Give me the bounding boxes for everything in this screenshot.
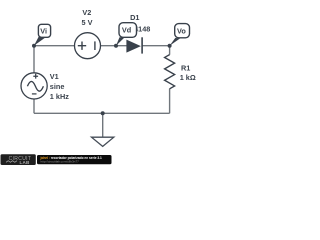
svg-text:1 kΩ: 1 kΩ: [180, 73, 196, 82]
label V1 value: [50, 72, 69, 101]
wire bottom horizontal: [34, 112, 170, 114]
node Vo flag: [170, 24, 190, 46]
svg-text:Vi: Vi: [40, 26, 47, 35]
svg-text:V1: V1: [50, 72, 59, 81]
node junction dot Vi: [32, 44, 36, 48]
voltage source V2: [75, 33, 101, 59]
svg-text:sine: sine: [50, 82, 65, 91]
ground: [92, 137, 114, 146]
node junction dot Vd: [114, 44, 118, 48]
voltage source V1 (sine): [21, 73, 47, 99]
diode D1: [126, 37, 142, 53]
wire right vertical lower: [169, 89, 171, 114]
label R1 value: [180, 63, 196, 82]
node Vd flag: [116, 23, 137, 46]
svg-text:Vd: Vd: [122, 26, 131, 35]
svg-text:D1: D1: [130, 13, 139, 22]
wire left vertical upper: [33, 45, 35, 73]
watermark CircuitLab logo badge: [1, 154, 36, 165]
svg-text:V2: V2: [82, 8, 91, 17]
svg-text:LAB: LAB: [20, 160, 31, 165]
wire V2-to-diode: [101, 45, 127, 47]
wire left vertical lower: [33, 99, 35, 113]
wire top-left horizontal: [34, 45, 75, 47]
node junction dot Vo: [168, 44, 172, 48]
label V2 value: [82, 8, 93, 27]
svg-text:1 kHz: 1 kHz: [50, 92, 69, 101]
svg-text:http://circuitlab.com/c8b3rt77: http://circuitlab.com/c8b3rt77: [41, 160, 80, 164]
node Vi flag: [34, 24, 51, 45]
svg-text:R1: R1: [181, 63, 190, 72]
watermark title box: [37, 155, 112, 164]
node junction dot ground: [101, 111, 105, 115]
wire right vertical upper: [169, 45, 171, 55]
svg-text:5 V: 5 V: [82, 18, 93, 27]
svg-text:Vo: Vo: [177, 26, 186, 35]
resistor R1: [165, 55, 175, 89]
wire ground stub: [102, 113, 104, 137]
wire diode-to-Vo-corner: [142, 45, 170, 47]
